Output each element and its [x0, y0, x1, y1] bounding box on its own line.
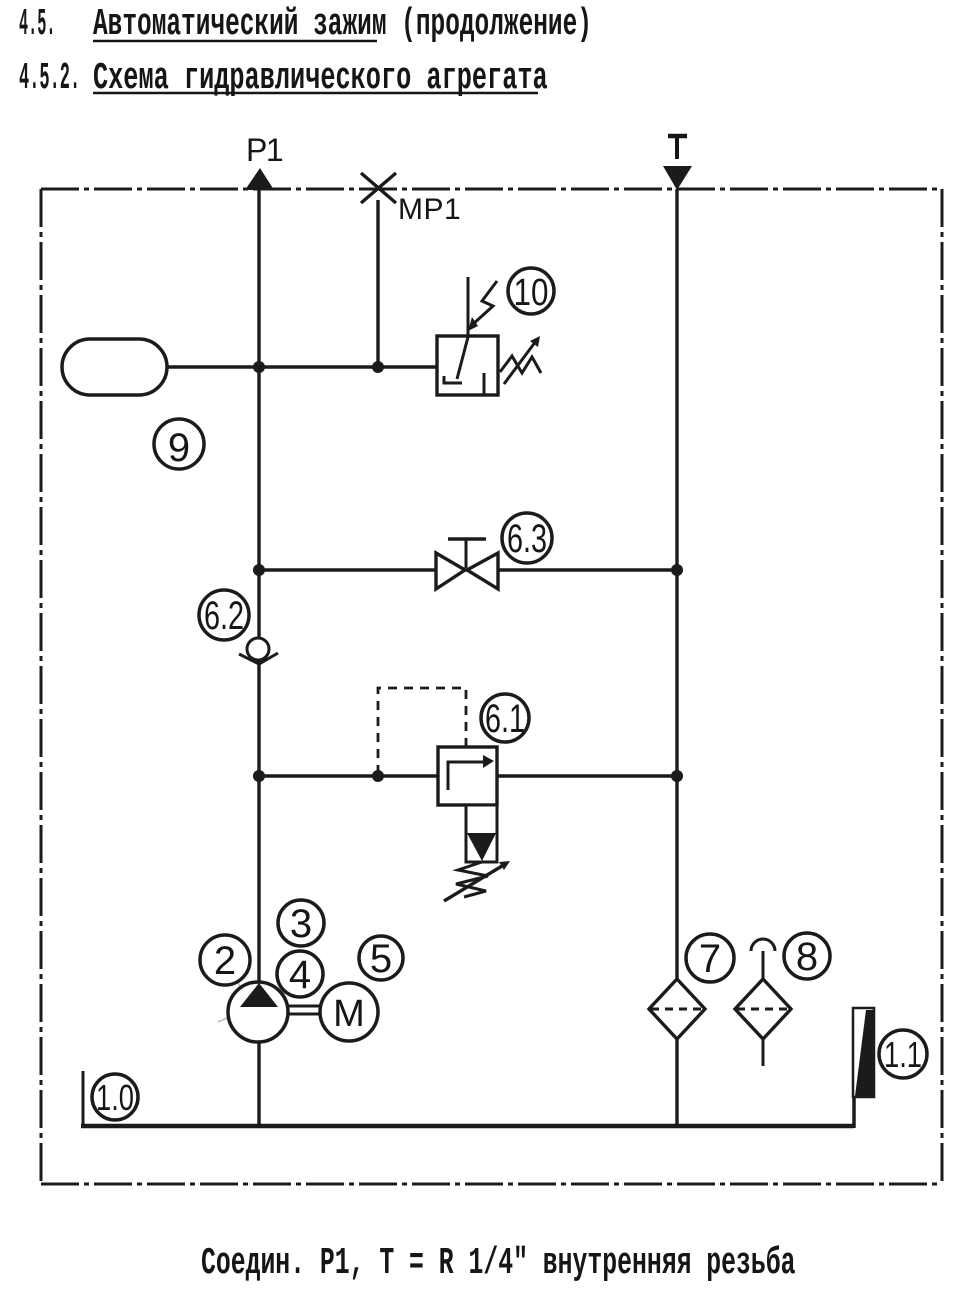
label circle 2: [200, 935, 250, 985]
label circle 4: [277, 951, 323, 997]
relief valve 6.1 arrow: [448, 762, 483, 790]
svg-text:4: 4: [289, 953, 311, 997]
wire MP1 drop: [376, 200, 379, 367]
svg-text:P1: P1: [246, 132, 283, 168]
heading line 2 number: [19, 56, 80, 100]
heading line 2 underline: [93, 92, 538, 95]
svg-text:MP1: MP1: [398, 193, 461, 226]
svg-text:4.5.2.: 4.5.2.: [19, 56, 80, 100]
check valve 6.2 seat: [239, 653, 278, 664]
check valve 6.2 ball: [247, 638, 269, 660]
port T label: [668, 136, 687, 159]
svg-text:7: 7: [699, 937, 721, 981]
pressure switch 10 adjust arrow: [504, 341, 536, 384]
svg-text:2: 2: [214, 939, 236, 983]
accumulator 9: [62, 339, 167, 395]
filter 7: [649, 979, 705, 1039]
shutoff valve 6.3: [436, 553, 498, 589]
relief valve 6.1 poppet: [467, 833, 496, 861]
motor M: [320, 983, 378, 1041]
label circle 3: [278, 900, 324, 946]
breather 8: [735, 979, 791, 1039]
svg-text:8: 8: [796, 935, 818, 979]
wire P1 vertical lower: [257, 660, 260, 983]
wire accumulator line: [167, 365, 437, 368]
label circle 6.3: [502, 513, 552, 563]
level gauge 1.1 outline: [853, 1008, 874, 1097]
junction node accumulator/P1: [253, 361, 265, 373]
heading line 2 text: [93, 56, 548, 100]
test point MP1 cross: [361, 173, 396, 203]
label circle 1.1: [879, 1030, 927, 1078]
label circle 9: [154, 419, 204, 469]
svg-text:Автоматический зажим (продолже: Автоматический зажим (продолжение): [93, 2, 592, 46]
svg-text:9: 9: [168, 426, 190, 470]
label circle 1.0: [92, 1074, 138, 1120]
pump 2: [228, 982, 288, 1042]
svg-text:6.3: 6.3: [507, 517, 547, 561]
breather 8 stub up: [762, 951, 765, 979]
heading line 1 underline: [93, 40, 377, 43]
svg-text:6.1: 6.1: [485, 697, 525, 741]
label circle 10: [508, 268, 554, 314]
pressure switch 10 body: [437, 336, 498, 395]
svg-text:Соедин. P1, T = R 1/4" внутрен: Соедин. P1, T = R 1/4" внутренняя резьба: [201, 1241, 795, 1285]
junction node P1/6.3: [253, 564, 265, 576]
pressure switch 10 spring: [500, 356, 541, 373]
svg-text:4.5.: 4.5.: [19, 2, 55, 45]
junction node pilot/6.1: [372, 770, 384, 782]
heading line 1 text: [93, 2, 592, 46]
level gauge 1.1 wedge: [855, 1010, 873, 1096]
port T arrow: [663, 166, 692, 190]
tank line 1.0: [82, 1071, 85, 1127]
wire T vertical: [675, 189, 678, 1127]
label circle 7: [686, 934, 734, 982]
relief valve 6.1 pilot dashed line: [378, 688, 466, 774]
wire valve 6.3 line: [259, 568, 677, 571]
relief valve 6.1 lower body: [466, 805, 497, 862]
label circle 6.1: [481, 694, 529, 742]
label circle 8: [784, 933, 830, 979]
port P1 arrow: [245, 168, 274, 190]
svg-text:6.2: 6.2: [204, 594, 244, 638]
caption: [201, 1241, 795, 1285]
label circle 5: [359, 936, 403, 980]
junction node T/6.1: [671, 770, 683, 782]
wire pump suction to tank: [257, 1041, 260, 1127]
svg-text:5: 5: [370, 937, 392, 981]
heading line 1 number: [19, 2, 55, 45]
svg-text:10: 10: [514, 272, 549, 314]
enclosure boundary dash-dot frame: [41, 189, 942, 1184]
svg-text:M: M: [333, 993, 365, 1035]
breather 8 hook: [751, 939, 775, 951]
pressure switch 10 electric line up: [467, 277, 470, 336]
svg-text:1.1: 1.1: [884, 1034, 922, 1075]
pressure switch 10 contact: [444, 337, 484, 394]
junction node T/6.3: [671, 564, 683, 576]
coupling 4: [288, 1005, 321, 1008]
label circle 6.2: [199, 590, 249, 640]
svg-text:3: 3: [290, 902, 312, 946]
wire valve 6.1 line: [259, 774, 677, 777]
breather 8 stub down: [762, 1039, 765, 1066]
svg-text:1.0: 1.0: [96, 1077, 134, 1118]
junction node MP1/accumulator: [372, 361, 384, 373]
junction node P1/6.1: [253, 770, 265, 782]
leader lines pump labels: [233, 975, 272, 1036]
relief valve 6.1 body: [438, 747, 497, 805]
wire P1 vertical upper: [257, 189, 260, 638]
relief valve 6.1 spring: [456, 862, 488, 897]
relief valve 6.1 adjust arrow: [444, 863, 507, 901]
pressure switch 10 lightning arrow: [472, 281, 497, 325]
